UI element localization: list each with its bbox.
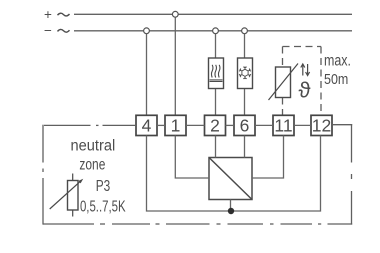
svg-text:zone: zone: [79, 157, 105, 174]
svg-text:11: 11: [274, 116, 292, 136]
svg-text:ϑ: ϑ: [298, 78, 310, 103]
svg-text:−: −: [44, 23, 52, 38]
svg-text:50m: 50m: [324, 71, 348, 88]
svg-text:6: 6: [240, 116, 250, 136]
svg-text:P3: P3: [96, 178, 111, 195]
svg-text:2: 2: [210, 116, 220, 136]
svg-text:12: 12: [312, 116, 331, 136]
svg-text:+: +: [44, 7, 52, 22]
svg-text:4: 4: [142, 116, 152, 136]
svg-text:max.: max.: [324, 53, 351, 70]
svg-text:0,5..7,5K: 0,5..7,5K: [80, 198, 126, 215]
svg-text:neutral: neutral: [71, 137, 116, 154]
svg-text:1: 1: [171, 116, 181, 136]
